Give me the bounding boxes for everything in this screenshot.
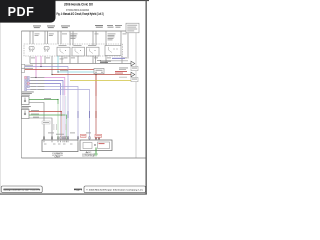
bus wire A (gray) to blower motor	[30, 63, 131, 65]
label HOT AT ALL TIMES (left)	[33, 26, 41, 29]
blower motor connector arrow	[119, 61, 138, 70]
wire feed relay K4	[105, 31, 107, 46]
wire BLU drop pale	[62, 95, 64, 140]
wire PNK drop x36	[35, 56, 37, 78]
label on GRN wire	[44, 97, 51, 100]
footer rule	[0, 194, 147, 195]
relay K3	[87, 45, 100, 56]
wire BLK from sensor	[29, 118, 52, 140]
connector tab C (left edge)	[22, 68, 25, 72]
wire LT BLU drop x58	[57, 56, 59, 72]
wire E RED bus to comp2	[52, 74, 131, 76]
wire drop x78	[77, 56, 79, 64]
wire RED stub x99	[98, 138, 100, 140]
wire E branch RED down	[95, 75, 97, 97]
note block (thermostat)	[22, 106, 31, 109]
PDF badge	[0, 0, 56, 23]
label RED (right)	[115, 71, 127, 74]
fuse label 40A	[62, 33, 67, 36]
page border right	[146, 0, 147, 195]
connector label tag	[42, 121, 50, 124]
wire code chips row F	[25, 76, 45, 78]
wire LT VIO drop x68	[67, 67, 69, 141]
wire feed F1b	[32, 31, 34, 44]
wire F PNK bus	[36, 78, 65, 96]
connector pins above control unit	[43, 137, 99, 139]
wire code chips row J	[25, 88, 45, 90]
wire color code tag x88	[88, 111, 91, 118]
wire B PNK bus	[25, 66, 68, 68]
footer date text ink	[4, 189, 40, 190]
footer page ink	[74, 189, 82, 190]
relay contact sub-box	[98, 142, 110, 149]
footer date box	[1, 186, 42, 193]
junction x41	[40, 66, 41, 67]
wire code chips row I	[25, 85, 45, 87]
wire link K4 to legend leg	[106, 60, 128, 62]
footer copyright ink	[87, 189, 144, 190]
wire feed F1a	[29, 31, 31, 44]
condenser fan connector arrow	[119, 72, 138, 81]
junction GRN	[57, 99, 58, 100]
wire BLK from pressure switch	[29, 103, 44, 141]
label HOT IN RUN (right)	[115, 25, 122, 28]
diagram frame left	[20, 31, 22, 158]
relay coil sub-box	[83, 143, 92, 149]
pin labels above boxes	[48, 133, 91, 135]
svg-text:Fig. 4: Manual A/C Circuit, Ex: Fig. 4: Manual A/C Circuit, Except Hybri…	[57, 12, 104, 16]
wire J LT VIO bus	[25, 90, 90, 141]
wire drop x122	[121, 56, 123, 64]
wire code chips row G	[25, 79, 45, 81]
fuse F1	[29, 46, 34, 52]
vertical wire from legend x128	[127, 33, 129, 59]
wire feed relay K1	[69, 31, 71, 46]
junction x96	[95, 74, 96, 75]
wire drop x30	[29, 56, 31, 64]
wire RED drop pale 2	[60, 116, 62, 140]
wire feed relay K3	[92, 31, 94, 46]
evaporator temperature sensor	[22, 110, 30, 119]
wire GRN from pressure switch	[29, 100, 58, 105]
wire G BLU bus (left)	[25, 81, 63, 96]
wire D LT BLU bus	[58, 71, 94, 73]
fuse label 7.5A	[49, 34, 54, 36]
junction dot in relay	[94, 144, 95, 145]
page background	[0, 0, 149, 198]
wire H BLU bus	[25, 84, 61, 96]
climate control unit box	[42, 140, 78, 152]
red connector label (left of relay)	[81, 134, 87, 137]
wire feed F2a	[44, 31, 46, 44]
label HOT AT ALL TIMES (mid)	[95, 25, 103, 28]
relay K4	[105, 46, 121, 56]
wire feed F3a	[57, 31, 59, 44]
wire LT BLU drop pale	[65, 96, 67, 137]
junction x58	[57, 71, 58, 72]
ground symbol	[94, 154, 98, 156]
wire color code tag x96	[95, 111, 98, 118]
note text block (relay feeds)	[71, 34, 78, 39]
fuse label (mid)	[95, 33, 99, 36]
wire drop x52	[51, 56, 53, 75]
wire GRN ground stub	[95, 148, 97, 154]
connector label C101 row	[31, 58, 127, 61]
wire feed relay K1b	[72, 31, 74, 46]
wire RED drop x96 lower	[95, 96, 97, 140]
label HOT AT ALL TIMES (second)	[47, 26, 55, 29]
thermal fuse on wire D	[94, 69, 104, 74]
wire drop x93	[92, 56, 94, 64]
note box (top right legend)	[126, 23, 139, 33]
wire PNK drop pale	[64, 95, 66, 140]
wire code labels row B/C	[25, 65, 33, 69]
wire drop x45	[44, 56, 46, 64]
fuse label (far right)	[123, 33, 127, 36]
label on bus A	[100, 61, 111, 63]
connector tab B (left edge)	[22, 64, 25, 68]
wire color code tag x68	[67, 111, 70, 118]
svg-text:CLUTCH RELAY: CLUTCH RELAY	[82, 155, 96, 158]
labels near sensor wires	[31, 110, 39, 117]
junction x36	[35, 77, 36, 78]
diagram frame top	[21, 30, 136, 32]
wire BLU drop pale 2	[60, 95, 62, 140]
svg-text:PDF: PDF	[8, 5, 35, 19]
label HOT IN RUN	[61, 26, 70, 29]
junction RED	[61, 111, 62, 112]
wire PNK drop x41	[40, 56, 42, 67]
wire code tag bundle	[54, 124, 67, 130]
wire feed F3b	[60, 31, 62, 44]
wire I LT VIO bus	[25, 87, 78, 141]
relay K2	[72, 45, 85, 56]
wire GRN drop pale	[57, 104, 59, 140]
wire GRN from sensor	[29, 115, 67, 119]
A/C compressor clutch relay box	[80, 140, 112, 151]
junction x52	[51, 74, 52, 75]
wire color code tag x78	[77, 111, 80, 118]
relay K1	[57, 45, 70, 56]
page border top	[0, 0, 149, 1]
wire GRN drop pale 2	[66, 119, 68, 140]
red connector label (right of relay)	[95, 134, 102, 137]
pin marks inside control unit	[44, 141, 79, 143]
svg-text:© 2006 Mitchell Repair Informa: © 2006 Mitchell Repair Information Compa…	[86, 189, 144, 192]
wire drop x70	[69, 56, 71, 64]
A/C pressure switch	[22, 97, 30, 105]
wire drop x62	[61, 56, 63, 64]
wire drop x106	[105, 56, 107, 64]
diagram frame right (inner)	[135, 31, 137, 158]
wire C RED bus	[25, 70, 96, 97]
wire code label row D	[60, 69, 68, 72]
wire feed F2b	[47, 31, 49, 44]
wire BLU label (right)	[112, 58, 125, 59]
wire feed relay K3b	[95, 31, 97, 46]
note block (pressure switch)	[22, 92, 34, 96]
wire feed relay K4b	[120, 31, 122, 46]
page border left (faint)	[0, 0, 2, 194]
wire drop x95.5	[95, 56, 97, 64]
wire RED from sensor	[29, 112, 61, 117]
fuse F2	[44, 46, 49, 52]
svg-text:Page 1: Page 1	[74, 189, 83, 191]
fuse label 15A	[35, 34, 40, 36]
pin number labels in control unit	[44, 143, 73, 146]
under-hood fuse/relay box	[24, 44, 123, 56]
label HOT IN START	[107, 25, 114, 28]
footer copyright box	[84, 186, 146, 193]
wire code chips row H	[25, 82, 45, 84]
svg-text:2006 Honda Civic DX: 2006 Honda Civic DX	[64, 2, 93, 6]
note text block (right)	[108, 34, 116, 41]
wire G YEL bus (right)	[70, 80, 131, 82]
diagram frame bottom	[21, 157, 145, 159]
